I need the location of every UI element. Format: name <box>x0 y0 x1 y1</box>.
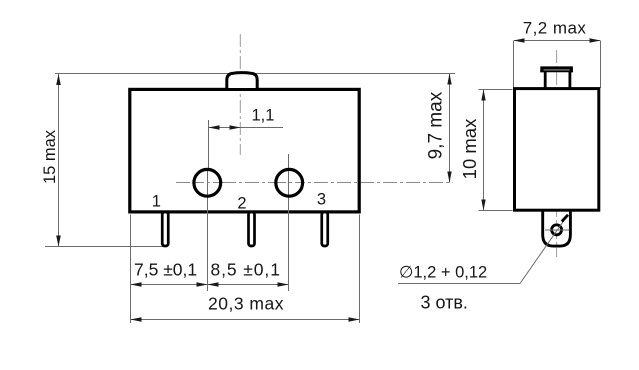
svg-text:3: 3 <box>317 191 326 209</box>
svg-text:20,3 max: 20,3 max <box>208 294 284 314</box>
svg-text:7,2 max: 7,2 max <box>523 19 587 38</box>
svg-text:1,1: 1,1 <box>252 107 275 125</box>
svg-text:2: 2 <box>237 195 246 213</box>
svg-text:8,5 ±0,1: 8,5 ±0,1 <box>211 260 281 280</box>
svg-text:3 отв.: 3 отв. <box>421 293 468 313</box>
svg-text:7,5 ±0,1: 7,5 ±0,1 <box>134 260 197 280</box>
svg-text:10 max: 10 max <box>459 118 480 179</box>
svg-text:1: 1 <box>152 193 161 211</box>
svg-text:∅1,2 + 0,12: ∅1,2 + 0,12 <box>399 264 487 282</box>
svg-text:15 max: 15 max <box>41 129 59 184</box>
svg-text:9,7 max: 9,7 max <box>426 91 447 159</box>
